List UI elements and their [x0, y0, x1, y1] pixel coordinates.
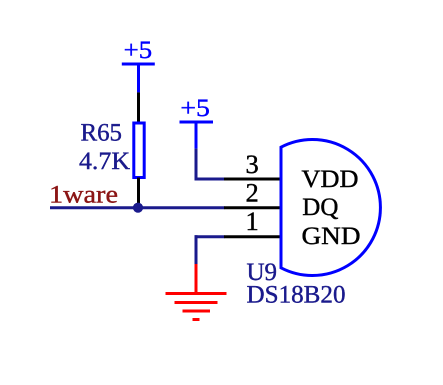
wire GND branch horizontal [195, 235, 225, 238]
resistor R65 body [134, 123, 144, 178]
U9 body (DS18B20 D-shape outline) [281, 139, 380, 275]
svg-text:GND: GND [302, 223, 361, 250]
U9 pin 1 (GND) stub [224, 235, 281, 238]
wire VDD branch vertical [195, 149, 198, 181]
resistor R65 bottom lead [137, 178, 140, 208]
wire GND branch vertical [195, 235, 198, 264]
power symbol +5 (pull-up rail) [122, 64, 155, 92]
svg-text:3: 3 [246, 149, 259, 179]
svg-text:4.7K: 4.7K [79, 148, 130, 175]
svg-text:2: 2 [246, 177, 259, 207]
ground symbol GND [166, 264, 227, 320]
resistor R65 top lead [137, 92, 140, 123]
svg-text:+5: +5 [124, 37, 153, 64]
svg-text:1ware: 1ware [49, 182, 118, 209]
svg-text:VDD: VDD [302, 166, 359, 193]
junction dot on net 1ware [133, 203, 143, 213]
svg-text:+5: +5 [180, 95, 210, 122]
U9 pin 3 (VDD) stub [224, 178, 281, 181]
svg-text:1: 1 [246, 206, 259, 236]
svg-text:R65: R65 [81, 120, 123, 147]
U9 pin 2 (DQ) stub [224, 206, 281, 209]
svg-text:DQ: DQ [302, 194, 338, 221]
svg-text:DS18B20: DS18B20 [247, 281, 346, 308]
power symbol +5 (VDD branch) [180, 122, 214, 149]
wire net 1ware (horizontal) [50, 206, 225, 209]
wire VDD branch horizontal [195, 178, 225, 181]
